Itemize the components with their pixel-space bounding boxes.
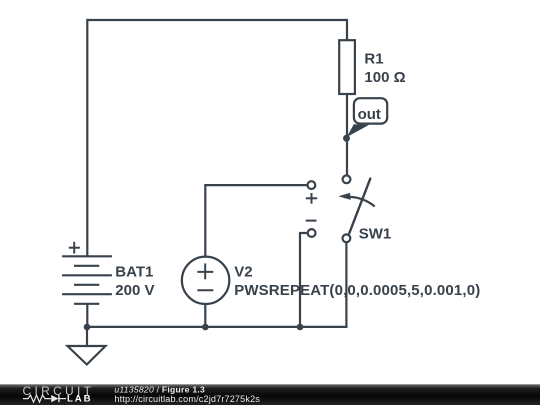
node out flag	[347, 98, 387, 137]
svg-text:out: out	[358, 106, 381, 123]
wire bottom rail	[87, 326, 346, 328]
switch SW1	[306, 175, 375, 242]
wire R1 to switch	[346, 94, 348, 175]
wire switch bottom to rail	[345, 243, 347, 329]
node out dot	[343, 135, 350, 142]
junction minus control	[297, 324, 304, 331]
ground	[68, 346, 106, 365]
wire BAT1 bottom	[86, 304, 88, 328]
svg-text:PWSREPEAT(0,0,0.0005,5,0.001,0: PWSREPEAT(0,0,0.0005,5,0.001,0)	[234, 282, 480, 299]
wire top rail	[87, 19, 347, 21]
wire switch plus control to V2	[205, 185, 307, 257]
voltage source V2	[182, 257, 229, 304]
resistor R1	[339, 40, 355, 94]
battery BAT1	[62, 242, 112, 304]
svg-text:V2: V2	[234, 264, 252, 281]
svg-text:100 Ω: 100 Ω	[364, 69, 405, 86]
wire to ground	[86, 327, 88, 346]
svg-text:SW1: SW1	[359, 226, 392, 243]
wire top right to R1	[346, 19, 348, 40]
wire switch minus control down	[300, 233, 307, 327]
svg-text:u1135820 / Figure 1.3: u1135820 / Figure 1.3	[114, 384, 205, 394]
svg-text:LAB: LAB	[67, 394, 92, 405]
wire left vertical to BAT1	[86, 19, 88, 256]
logo CircuitLab	[23, 384, 95, 405]
svg-text:BAT1: BAT1	[115, 264, 153, 281]
svg-text:200 V: 200 V	[115, 282, 154, 299]
footer bar	[0, 384, 540, 405]
svg-text:R1: R1	[364, 51, 383, 68]
junction ground/BAT1	[84, 324, 91, 331]
wire V2 bottom	[204, 304, 206, 327]
junction V2 bottom	[202, 324, 209, 331]
svg-text:http://circuitlab.com/c2jd7r72: http://circuitlab.com/c2jd7r7275k2s	[114, 394, 260, 404]
